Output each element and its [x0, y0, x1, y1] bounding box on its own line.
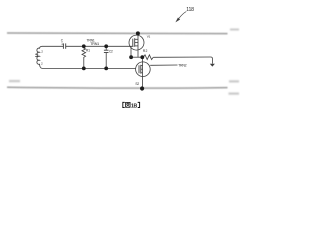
svg-text:B: B: [134, 103, 138, 109]
svg-text:R2: R2: [143, 49, 148, 53]
svg-text:TRN2: TRN2: [178, 63, 187, 67]
svg-text:2: 2: [41, 61, 43, 65]
svg-text:1: 1: [61, 42, 63, 46]
svg-text:C2: C2: [109, 49, 113, 53]
svg-text:2: 2: [41, 49, 43, 53]
svg-text:V1: V1: [147, 34, 151, 38]
svg-text:TRN1: TRN1: [90, 42, 99, 46]
svg-text:R1: R1: [86, 48, 90, 52]
svg-text:118: 118: [186, 7, 194, 13]
svg-text:S2: S2: [135, 82, 139, 86]
